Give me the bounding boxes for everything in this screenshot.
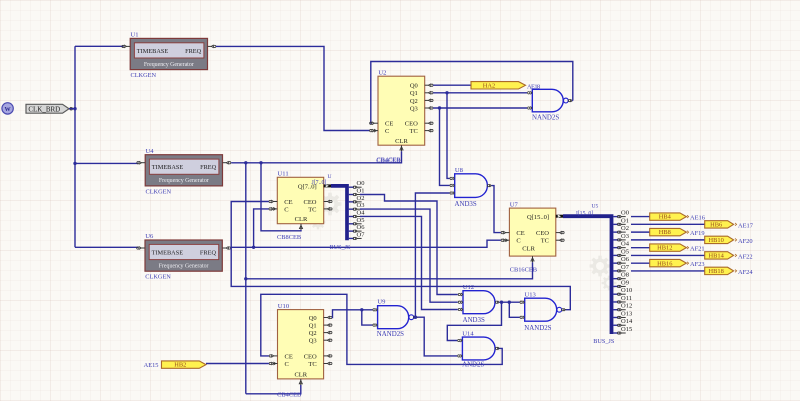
bus U11.Q to bar: [331, 186, 347, 240]
and gate U12 AND3S: [463, 291, 495, 314]
wire clock trunk vertical: [74, 46, 76, 247]
svg-text:CEO: CEO: [304, 199, 317, 206]
svg-text:O7: O7: [357, 231, 366, 238]
svg-text:C: C: [385, 128, 389, 135]
svg-text:Q1: Q1: [410, 90, 418, 97]
U7 bus pin stub: [556, 215, 564, 218]
counter U10 CB4CEB: [278, 310, 324, 379]
svg-text:AE16: AE16: [690, 215, 705, 222]
svg-text:CLKGEN: CLKGEN: [146, 188, 172, 195]
svg-text:AND2S: AND2S: [462, 361, 484, 368]
svg-text:BUS_JS: BUS_JS: [330, 244, 352, 251]
svg-text:U1: U1: [131, 32, 139, 39]
svg-text:NAND2S: NAND2S: [524, 325, 551, 332]
svg-text:CEO: CEO: [405, 121, 418, 128]
wire U2.Q0 to HA2: [433, 84, 471, 86]
node U4 drop2: [259, 161, 262, 164]
nand gate U9 NAND2S: [378, 306, 409, 329]
svg-text:U7: U7: [510, 202, 519, 209]
svg-text:O4: O4: [621, 241, 630, 248]
net port HB10: [705, 236, 734, 243]
wire drop2 to U11.CLR: [261, 163, 301, 231]
node U9 out junction: [414, 316, 417, 319]
and gate U14 AND2S: [462, 337, 495, 360]
svg-text:CLR: CLR: [295, 216, 308, 223]
U7 bus entry O3: [613, 239, 618, 241]
svg-text:AF19: AF19: [690, 230, 705, 237]
svg-text:O1: O1: [357, 188, 365, 195]
net port HA2: [471, 82, 526, 89]
wire branch to U7.CLR: [246, 262, 533, 279]
wire U3 out: [571, 100, 574, 102]
net port HB12: [650, 244, 687, 251]
svg-text:U: U: [328, 174, 332, 180]
wire branch to U9.in2: [362, 310, 373, 325]
svg-text:Q1: Q1: [309, 323, 317, 330]
wire U2.Q1 to U3.in1: [433, 92, 527, 94]
node junction CLK_BRD: [73, 107, 76, 110]
svg-text:U8: U8: [455, 167, 464, 174]
svg-text:HB6: HB6: [710, 221, 722, 228]
wire U9.out to U8.in3: [415, 193, 449, 317]
U14 out glyph: [496, 347, 498, 349]
counter U11 CB8CEB: [277, 177, 323, 223]
svg-text:HB12: HB12: [657, 245, 672, 252]
svg-text:O5: O5: [357, 217, 365, 224]
wire U2.Q3 to U3.in2: [433, 107, 527, 109]
svg-text:O3: O3: [357, 202, 365, 209]
svg-text:HB16: HB16: [657, 260, 672, 267]
wire U6.FREQ to U7.C: [231, 240, 501, 247]
wire U10.Q0 to U9.in1: [332, 310, 373, 318]
net port HB14: [705, 252, 734, 259]
svg-text:AF20: AF20: [738, 238, 753, 245]
svg-text:C: C: [516, 238, 520, 245]
svg-text:U13: U13: [525, 291, 537, 298]
node U4 drop1: [244, 161, 247, 164]
U7 bus entry O13: [613, 316, 618, 318]
wire O3 to HB10: [631, 239, 705, 241]
wire U1.FREQ to U2.C: [216, 46, 370, 130]
node U6 freq branch: [252, 246, 255, 249]
svg-text:CLKGEN: CLKGEN: [131, 72, 157, 79]
U11 bus entry O1: [349, 194, 354, 196]
U7 bus entry O4: [613, 247, 618, 249]
svg-text:HA2: HA2: [483, 82, 495, 89]
svg-text:Q3: Q3: [309, 338, 317, 345]
node Q1 branch: [445, 91, 448, 94]
svg-text:HB14: HB14: [709, 253, 725, 260]
wire O0 to HB4: [631, 216, 650, 218]
sheet symbol icon W: [2, 103, 13, 114]
net port HB16: [650, 259, 687, 266]
svg-text:O0: O0: [621, 210, 629, 217]
svg-text:O2: O2: [621, 225, 629, 232]
U7 bus entry O2: [613, 231, 618, 233]
svg-text:TIMEBASE: TIMEBASE: [137, 48, 169, 55]
wire O6 to HB16: [631, 262, 650, 264]
svg-text:TC: TC: [409, 128, 417, 135]
node U9 input branch: [360, 308, 363, 311]
svg-text:TIMEBASE: TIMEBASE: [152, 249, 184, 256]
svg-text:CB4CEB: CB4CEB: [377, 156, 401, 163]
svg-text:CE: CE: [385, 121, 393, 128]
svg-text:TIMEBASE: TIMEBASE: [152, 164, 184, 171]
U11 bus entry O2: [349, 201, 354, 203]
svg-text:O15: O15: [621, 326, 632, 333]
counter U2 CB4CEB: [378, 76, 425, 145]
svg-text:TC: TC: [308, 206, 316, 213]
wire O4 to HB12: [631, 247, 650, 249]
svg-text:CEO: CEO: [536, 230, 549, 237]
svg-text:U11: U11: [278, 171, 289, 178]
svg-text:FREQ: FREQ: [200, 249, 217, 256]
U11 bus entry O7: [349, 237, 354, 239]
U7 bus entry O0: [613, 216, 618, 218]
wire to U4 CLK: [75, 162, 138, 164]
svg-text:Q0: Q0: [410, 83, 418, 90]
svg-text:Frequency Generator: Frequency Generator: [144, 62, 194, 68]
U7 bus entry O14: [613, 324, 618, 326]
wire to U1 CLK: [75, 45, 123, 47]
nand gate U13 NAND2S: [525, 298, 557, 321]
svg-text:U10: U10: [278, 303, 290, 310]
wire HB2 to U10.C: [206, 363, 269, 365]
svg-text:Frequency Generator: Frequency Generator: [159, 178, 209, 184]
svg-text:CLR: CLR: [294, 371, 307, 378]
svg-text:O1: O1: [621, 217, 629, 224]
U7 bus entry O6: [613, 262, 618, 264]
net port HB8: [650, 228, 687, 235]
power port CLK_BRD: [26, 104, 69, 113]
svg-text:NAND2S: NAND2S: [532, 114, 559, 121]
svg-text:J[7..0]: J[7..0]: [312, 180, 327, 186]
U7 bus entry O11: [613, 301, 618, 303]
svg-text:O10: O10: [621, 287, 632, 294]
U11 bus pin stub: [324, 184, 332, 187]
svg-text:O6: O6: [621, 256, 630, 263]
wire CLK_BRD to clock trunk: [69, 108, 75, 110]
svg-text:Q[15..0]: Q[15..0]: [527, 214, 549, 221]
wire U4.FREQ to U2.CLR: [231, 151, 401, 163]
wire drop1 to U10.CLR: [246, 385, 301, 394]
U11 bus entry O5: [349, 223, 354, 225]
wire Q1 branch to U8.in1: [447, 93, 450, 179]
node U12 out branch1: [500, 301, 503, 304]
U11 bus entry O6: [349, 230, 354, 232]
svg-text:O6: O6: [357, 224, 366, 231]
svg-text:O5: O5: [621, 248, 629, 255]
svg-text:TC: TC: [541, 238, 549, 245]
svg-text:NAND2S: NAND2S: [377, 331, 404, 338]
svg-text:HB10: HB10: [709, 237, 724, 244]
svg-text:AND3S: AND3S: [463, 317, 485, 324]
svg-text:CLK_BRD: CLK_BRD: [28, 106, 60, 114]
svg-text:CE: CE: [285, 353, 293, 360]
svg-text:Q0: Q0: [309, 315, 317, 322]
net port HB2: [162, 361, 207, 368]
svg-text:AND3S: AND3S: [455, 201, 477, 208]
svg-text:HB18: HB18: [709, 268, 724, 275]
wire O5 to HB14: [631, 254, 705, 256]
U11 bus entry O0: [349, 186, 354, 188]
U7 bus entry O7: [613, 270, 618, 272]
svg-text:FREQ: FREQ: [185, 48, 202, 55]
svg-text:C: C: [284, 206, 288, 213]
svg-text:CLKGEN: CLKGEN: [145, 274, 171, 281]
wire O4 to U12.in3: [360, 216, 458, 309]
svg-text:HB8: HB8: [659, 229, 671, 236]
U7 bus entry O8: [613, 278, 618, 280]
wire O1 to U12.in1: [360, 195, 458, 295]
svg-text:J[15..0]: J[15..0]: [576, 211, 594, 217]
U8 out glyph: [488, 185, 490, 187]
svg-text:TC: TC: [308, 361, 316, 368]
svg-text:O2: O2: [357, 195, 365, 202]
svg-text:Frequency Generator: Frequency Generator: [159, 263, 209, 269]
svg-text:O13: O13: [621, 310, 632, 317]
svg-text:O12: O12: [621, 303, 632, 310]
wire O3 to U12.in2: [360, 209, 458, 302]
U11 bus entry O3: [349, 208, 354, 210]
wire branch2 to U13.in2: [509, 302, 519, 317]
svg-text:O9: O9: [621, 279, 629, 286]
svg-text:C: C: [285, 361, 289, 368]
U12 out glyph: [496, 301, 498, 303]
svg-text:U14: U14: [462, 331, 474, 338]
wire O1 to HB6: [631, 223, 705, 225]
U7 bus entry O10: [613, 293, 618, 295]
wire branch to U11.C: [254, 209, 269, 247]
and gate U8 AND3S: [455, 174, 488, 198]
svg-text:CLR: CLR: [522, 246, 535, 253]
svg-text:CB16CEB: CB16CEB: [510, 266, 537, 273]
U7 bus entry O15: [613, 332, 618, 334]
wire U14.out to U10.CE: [261, 294, 502, 364]
wire Q3 branch to U8.in2: [440, 108, 450, 185]
svg-text:AF24: AF24: [738, 269, 753, 276]
svg-text:O8: O8: [621, 272, 629, 279]
svg-text:Q2: Q2: [410, 98, 418, 105]
svg-text:AF21: AF21: [690, 246, 705, 253]
wire U8.out to U7.CE: [491, 186, 500, 233]
svg-text:AF23: AF23: [690, 261, 705, 268]
svg-text:U9: U9: [377, 299, 386, 306]
svg-text:HB2: HB2: [174, 362, 186, 369]
U7 bus entry O5: [613, 254, 618, 256]
nand gate U3 NAND2S: [532, 89, 563, 112]
svg-text:Q2: Q2: [309, 330, 317, 337]
svg-text:W: W: [5, 106, 12, 113]
svg-text:CLR: CLR: [395, 138, 408, 145]
U7 bus entry O12: [613, 309, 618, 311]
svg-text:U6: U6: [145, 233, 154, 240]
svg-text:FREQ: FREQ: [200, 164, 217, 171]
U7 bus entry O1: [613, 223, 618, 225]
wire U12.out to U13.in1: [499, 301, 519, 303]
svg-text:O3: O3: [621, 233, 629, 240]
wire U13.out to U11.CE: [231, 202, 570, 310]
U7 bus entry O9: [613, 285, 618, 287]
wire O7 to HB18: [631, 270, 705, 272]
bus U7.Q to bar: [563, 216, 612, 334]
svg-text:O4: O4: [357, 209, 366, 216]
wire U9.out jog to U14.in2: [415, 317, 457, 356]
svg-text:O7: O7: [621, 264, 630, 271]
svg-text:U5: U5: [592, 204, 599, 210]
svg-text:O0: O0: [357, 180, 365, 187]
svg-text:CB8CEB: CB8CEB: [277, 234, 301, 241]
node junction U4 branch: [73, 162, 76, 165]
svg-text:CB4CEB: CB4CEB: [277, 392, 301, 399]
wire drop1 vertical: [245, 163, 247, 394]
wire O2 to HB8: [631, 231, 650, 233]
svg-text:CE: CE: [516, 230, 524, 237]
svg-text:U2: U2: [378, 70, 386, 77]
net port HB6: [705, 221, 734, 228]
node Q3 branch: [438, 106, 441, 109]
counter U7 CB16CEB: [509, 208, 555, 256]
svg-text:AE17: AE17: [738, 222, 754, 229]
node U12 out branch2: [508, 301, 511, 304]
svg-text:O14: O14: [621, 318, 633, 325]
net port HB4: [650, 213, 687, 220]
wire to U6 CLK: [75, 246, 138, 248]
svg-text:U4: U4: [146, 148, 155, 155]
wire U3 feedback to U2.CE: [369, 62, 572, 124]
svg-text:CEO: CEO: [304, 353, 317, 360]
svg-text:Q3: Q3: [410, 105, 418, 112]
svg-text:AE15: AE15: [144, 362, 159, 369]
svg-text:HB4: HB4: [659, 214, 672, 221]
net port HB18: [705, 267, 734, 274]
svg-text:O11: O11: [621, 295, 632, 302]
U11 bus entry O4: [349, 215, 354, 217]
node drop1 to U7.CLR branch: [244, 277, 247, 280]
svg-text:BUS_JS: BUS_JS: [593, 338, 615, 345]
wire branch1 to U14.in1: [447, 302, 501, 340]
svg-text:U12: U12: [463, 284, 474, 291]
svg-text:CE: CE: [284, 199, 292, 206]
svg-text:AF22: AF22: [738, 253, 753, 260]
